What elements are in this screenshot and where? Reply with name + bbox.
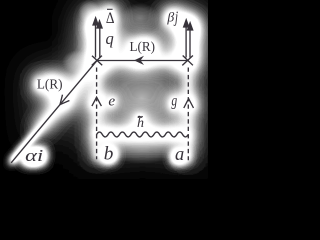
svg-text:L(R): L(R) [37,76,63,92]
svg-text:αi: αi [25,146,43,165]
svg-text:Δ: Δ [106,10,115,27]
svg-text:b: b [104,144,114,165]
svg-text:q: q [106,29,114,48]
svg-text:e: e [108,92,115,109]
svg-text:a: a [175,144,184,165]
svg-text:β: β [166,9,174,24]
svg-text:L(R): L(R) [130,39,156,55]
svg-text:g: g [171,92,177,109]
svg-text:h: h [137,116,144,131]
